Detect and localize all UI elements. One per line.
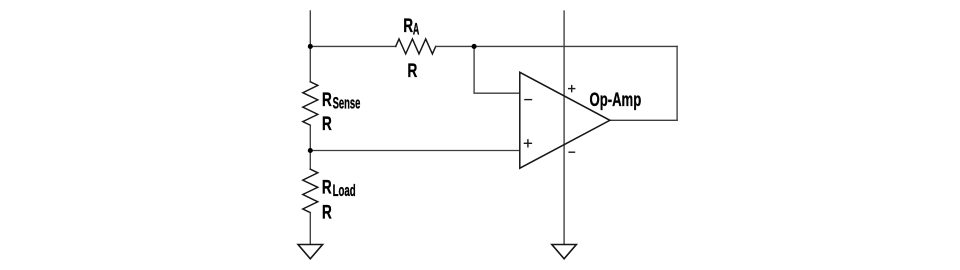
- svg-text:R: R: [403, 15, 413, 37]
- ground right: [552, 245, 577, 259]
- svg-text:R: R: [322, 176, 332, 198]
- svg-text:R: R: [408, 60, 418, 82]
- resistor RLoad zigzag: [303, 169, 318, 212]
- op-amp non-inverting input plus sign: [524, 142, 532, 144]
- node junction top-left: [308, 44, 313, 49]
- wire left rail bottom: [309, 213, 311, 245]
- svg-text:R: R: [322, 113, 332, 135]
- node junction mid-left: [308, 148, 313, 153]
- svg-text:Op-Amp: Op-Amp: [590, 89, 642, 111]
- resistor RSense zigzag: [303, 82, 318, 125]
- wire inverting input elbow: [474, 46, 520, 93]
- power minus sign: [568, 151, 575, 153]
- wire op-amp output: [610, 119, 677, 121]
- svg-text:Sense: Sense: [333, 95, 361, 113]
- wire feedback vertical: [676, 46, 678, 120]
- wire top horizontal to RA: [310, 45, 395, 47]
- op-amp triangle: [520, 72, 610, 168]
- resistor RA zigzag: [396, 39, 436, 54]
- wire left rail top stub: [309, 11, 311, 82]
- op-amp inverting input minus sign: [524, 99, 532, 101]
- svg-text:R: R: [322, 89, 332, 111]
- wire power rail: [563, 11, 565, 244]
- wire left rail middle: [309, 125, 311, 169]
- wire top horizontal to feedback corner: [436, 45, 677, 47]
- svg-text:Load: Load: [333, 182, 356, 200]
- power plus sign: [568, 88, 575, 90]
- svg-text:R: R: [322, 202, 332, 224]
- ground left: [298, 245, 323, 259]
- node junction feedback tap: [472, 44, 477, 49]
- wire non-inverting input: [310, 150, 520, 152]
- svg-text:A: A: [413, 21, 420, 39]
